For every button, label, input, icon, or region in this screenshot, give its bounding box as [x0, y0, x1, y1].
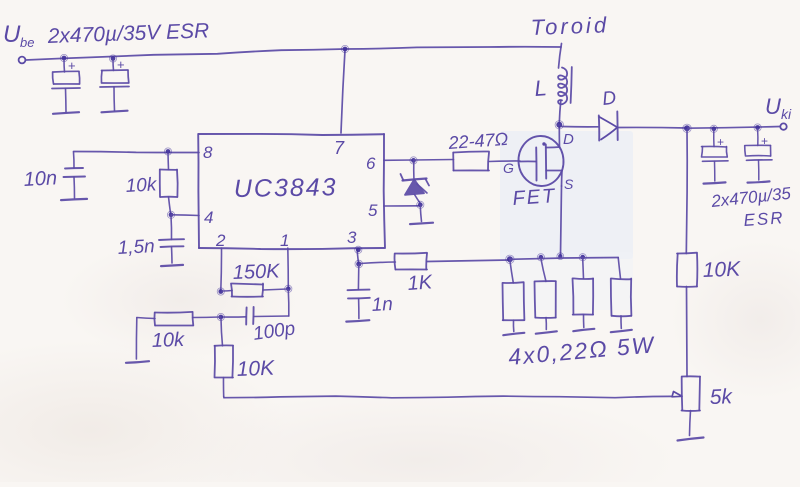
svg-text:UC3843: UC3843 [234, 173, 338, 203]
svg-text:22-47Ω: 22-47Ω [447, 129, 509, 153]
ground Rs2 [536, 331, 557, 333]
label 22-47ohm [447, 129, 509, 153]
label 10K bottom [236, 357, 275, 381]
ground input-cap1 [53, 112, 79, 114]
node pin2-junction2 [217, 313, 224, 320]
node pin3-b [355, 260, 363, 268]
scan shading patch [500, 131, 633, 259]
zener diode [401, 162, 430, 203]
wire feedback bottom [224, 396, 671, 398]
node pin3-a [355, 246, 362, 253]
diode D [599, 112, 618, 141]
wire pin4 stub [172, 214, 199, 217]
svg-text:FET: FET [512, 185, 557, 210]
label Uki [765, 94, 792, 122]
wire FET source down [561, 186, 562, 255]
ground 5k [678, 438, 704, 441]
pin 8 label [203, 143, 213, 162]
svg-text:U: U [765, 94, 781, 119]
svg-text:G: G [503, 160, 514, 176]
capacitor 10n [64, 152, 86, 198]
svg-text:U: U [3, 21, 21, 48]
svg-text:10k: 10k [151, 329, 185, 352]
node rail-pin7 [341, 45, 348, 52]
ground out-cap2 [748, 181, 770, 182]
wire drain-diode [562, 126, 598, 128]
label S small [564, 176, 574, 192]
svg-text:1n: 1n [371, 294, 393, 316]
pin 2 label [215, 231, 226, 250]
node pin8-10k [164, 148, 171, 155]
svg-text:+: + [761, 134, 768, 148]
svg-text:1: 1 [280, 231, 289, 250]
resistor 10k pin8-pin4 [160, 153, 178, 213]
label 10n [23, 167, 57, 191]
label 150K [232, 260, 281, 284]
label FET [512, 185, 557, 210]
wire out-10K [685, 130, 688, 254]
resistor 10K divider [677, 253, 698, 377]
resistor Rs1 0,22 [503, 261, 525, 332]
svg-text:+: + [717, 135, 724, 149]
inductor L toroid [558, 67, 572, 123]
wire rail-to-L [559, 44, 562, 69]
svg-text:D: D [563, 131, 574, 148]
svg-text:7: 7 [334, 138, 345, 158]
capacitor 100p [222, 307, 289, 325]
ground Rs4 [611, 330, 632, 332]
pin 4 label [204, 208, 213, 227]
potentiometer 5k [672, 376, 700, 435]
transistor FET Q1 [517, 127, 565, 188]
node out-cap1 [710, 125, 717, 132]
label 1n [371, 294, 393, 316]
svg-text:10n: 10n [23, 167, 57, 191]
label 100p [252, 318, 297, 345]
label Toroid [530, 12, 609, 40]
ground out-cap1 [704, 182, 726, 183]
wire pin5 [384, 205, 419, 207]
resistor Rs4 0,22 [611, 258, 632, 329]
pin 1 label [280, 231, 289, 250]
node pin6-zener [410, 157, 417, 164]
resistor 10K bottom [215, 319, 234, 397]
label 10K divider [702, 258, 741, 282]
wire pin7 to rail [341, 50, 345, 133]
wire pin1 [287, 248, 290, 289]
wire sense rail [510, 258, 618, 260]
wire pin2 [220, 248, 223, 291]
svg-text:10k: 10k [125, 174, 158, 197]
wire pin8 [74, 152, 200, 153]
svg-text:8: 8 [203, 143, 213, 162]
svg-text:150K: 150K [232, 260, 281, 284]
label D small [563, 131, 574, 148]
pin 3 label [347, 228, 357, 247]
node out-cap2 [754, 124, 761, 131]
label 1K [407, 271, 435, 295]
wire zener-gnd [420, 206, 421, 222]
resistor 1K [360, 253, 509, 270]
input terminal [19, 57, 26, 64]
node pin4 [167, 211, 174, 218]
resistor Rs2 0,22 [535, 259, 556, 330]
ground input-cap2 [102, 111, 128, 113]
capacitor C2 2x470u input b [100, 57, 129, 111]
svg-text:5: 5 [368, 201, 378, 220]
ground Rs3 [573, 329, 594, 331]
capacitor 1,5n [159, 216, 184, 263]
resistor 22-47ohm gate [414, 151, 521, 170]
svg-text:6: 6 [366, 154, 376, 173]
wire pin3 [357, 248, 359, 264]
resistor 10k left [137, 312, 220, 326]
capacitor 1n [348, 265, 370, 319]
node input-cap2 [109, 55, 116, 62]
node sense-1 [506, 255, 514, 263]
svg-text:10K: 10K [702, 258, 741, 282]
wire top rail [26, 47, 561, 60]
svg-text:10K: 10K [236, 357, 275, 381]
capacitor C1 2x470u input a [52, 58, 80, 112]
wire pin1-down [287, 290, 290, 316]
wire diode-out [618, 126, 687, 129]
op-amp U1 UC3843 box [198, 134, 385, 249]
svg-text:1K: 1K [407, 271, 435, 295]
ground zener [410, 223, 433, 224]
pin 6 label [366, 154, 376, 173]
label 2x470u/35 output [709, 184, 792, 211]
svg-text:+: + [68, 58, 76, 73]
svg-text:ESR: ESR [743, 208, 785, 230]
node sense-4 [579, 254, 586, 261]
svg-text:1,5n: 1,5n [117, 236, 155, 259]
label 4x0,22 5W [507, 331, 656, 370]
svg-text:L: L [534, 75, 548, 101]
output terminal [780, 123, 786, 129]
ground 10k left [126, 361, 149, 363]
svg-text:+: + [117, 57, 125, 72]
node pin1-junction [285, 285, 292, 292]
wire 10k-gnd [135, 318, 137, 359]
ground 10n [61, 199, 87, 200]
svg-text:2: 2 [215, 231, 226, 250]
ground 1n [346, 320, 369, 321]
wire out rail [688, 127, 780, 129]
node pin2-junction [217, 288, 224, 295]
svg-text:S: S [564, 176, 574, 192]
svg-text:Toroid: Toroid [530, 12, 609, 40]
svg-text:4: 4 [204, 208, 213, 227]
capacitor C3 output a [702, 130, 729, 181]
label 1,5n [117, 236, 155, 259]
capacitor C4 output b [745, 129, 772, 180]
svg-text:3: 3 [347, 228, 357, 247]
label ESR output [743, 208, 785, 230]
label Ube [3, 21, 34, 50]
node sense-3 [557, 253, 564, 260]
node out-divider [683, 124, 691, 132]
label 5k [709, 385, 733, 409]
svg-text:be: be [20, 35, 34, 50]
node drain [555, 121, 563, 129]
resistor Rs3 0,22 [573, 258, 594, 327]
wire pin6 [384, 159, 412, 161]
label D diode [601, 88, 617, 110]
svg-text:ki: ki [781, 106, 792, 122]
label 10k upper [125, 174, 158, 197]
ground 1,5n [161, 265, 183, 266]
label 10k left [151, 329, 185, 352]
label L [534, 75, 548, 101]
svg-text:D: D [601, 88, 617, 110]
pin 7 label [334, 138, 345, 158]
node input-cap1 [60, 54, 67, 61]
resistor 150K [222, 284, 287, 297]
label G [503, 160, 514, 176]
ground Rs1 [503, 333, 524, 335]
node pin5-zener [417, 201, 424, 208]
svg-text:5k: 5k [709, 385, 733, 409]
pin 5 label [368, 201, 378, 220]
label 2x470u/35V ESR (input) [46, 19, 209, 48]
node sense-2 [537, 254, 544, 261]
